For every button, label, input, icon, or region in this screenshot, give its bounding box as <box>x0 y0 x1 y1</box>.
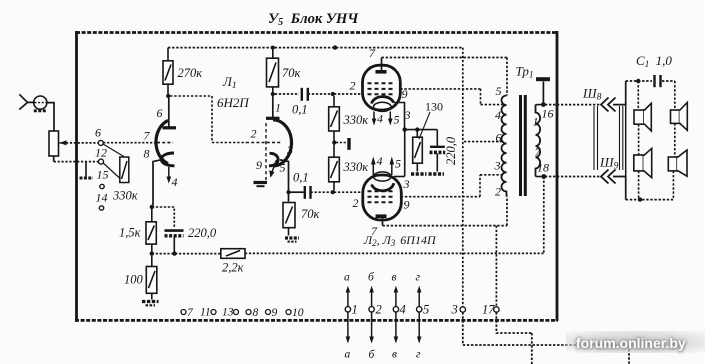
svg-text:Ш9: Ш9 <box>599 155 619 172</box>
node cathode RC <box>403 127 407 131</box>
node after top cap <box>331 92 335 96</box>
cable pair lines <box>594 106 623 170</box>
terminal circle 4 <box>393 307 398 312</box>
wire tube1 cathode lead pin3 <box>394 103 405 129</box>
node cathode junction <box>150 205 154 209</box>
transformer top ground <box>542 82 544 105</box>
wire left border <box>75 31 78 322</box>
wire triode2 cathode lead <box>280 160 289 202</box>
tube1 heater arrows 4 5 <box>373 112 375 121</box>
svg-text:10: 10 <box>292 307 304 319</box>
tube1 anode bar pin7 <box>376 70 387 74</box>
svg-text:5: 5 <box>496 84 502 98</box>
svg-text:13: 13 <box>222 307 234 319</box>
svg-text:9: 9 <box>256 158 262 172</box>
wire tube2 anode line <box>383 197 508 226</box>
terminal circle 5 <box>417 307 422 312</box>
shield ground <box>254 181 268 184</box>
wire Sh9 to bottom rail <box>613 177 626 200</box>
svg-text:6Н2П: 6Н2П <box>217 95 250 110</box>
tube2 grid row screen <box>368 196 395 198</box>
input jack hatched ground <box>34 109 47 112</box>
ground under 220.0 <box>429 172 445 175</box>
tube2 cathode arc <box>372 183 394 191</box>
callout line 130 <box>419 112 430 139</box>
tube2 grid row control <box>368 190 395 192</box>
block border <box>75 31 558 322</box>
triode2 grid dashes <box>246 142 281 144</box>
wire node12 to 330k bottom <box>103 163 125 183</box>
wire jack to pot <box>47 103 54 131</box>
resistor 70k bottom <box>283 203 295 236</box>
transformer secondary winding <box>536 105 541 177</box>
terminal 5 arrows <box>418 291 420 306</box>
bottom terminals 1 2 4 5 <box>346 286 422 344</box>
tube1 grid row control <box>368 93 395 95</box>
feedback drop from 18 <box>543 177 545 254</box>
wire top border <box>76 31 557 34</box>
small terminals row 7 11 13 8 9 10 <box>181 310 291 315</box>
speaker 3 <box>634 148 652 177</box>
wire sp3 to rail <box>638 171 640 200</box>
triode1 grid dashes <box>157 142 173 144</box>
B+ rail <box>168 47 463 49</box>
connector Sh9 arrows <box>601 170 616 184</box>
svg-text:7: 7 <box>371 224 378 238</box>
speaker 1 <box>634 103 651 131</box>
wire tube1 screen pin9 <box>400 89 504 105</box>
svg-text:7: 7 <box>369 46 376 60</box>
svg-text:3: 3 <box>494 159 501 173</box>
speaker 2 <box>671 103 688 131</box>
svg-text:270к: 270к <box>178 66 203 80</box>
resistor 70k top <box>267 48 279 92</box>
node bottom rail <box>638 197 642 201</box>
terminal circle 17 <box>494 307 499 312</box>
svg-text:6: 6 <box>157 106 163 120</box>
svg-text:12: 12 <box>95 146 107 160</box>
wire riser Sh8-Sh9 <box>625 105 627 177</box>
triode1 heater arrow 4 <box>168 167 170 179</box>
wire pot bottom <box>53 156 55 162</box>
svg-text:14: 14 <box>96 191 108 205</box>
wire tap6 to B+ <box>464 141 504 143</box>
svg-text:9: 9 <box>404 198 410 212</box>
wire shared cathode vertical <box>404 131 406 177</box>
wire bottom cap to node <box>311 191 332 193</box>
tube1 anode lead <box>381 58 383 72</box>
speaker 4 <box>668 150 687 176</box>
svg-text:Ш8: Ш8 <box>582 86 602 103</box>
svg-text:1: 1 <box>533 115 539 129</box>
tube2 anode bar pin7 <box>376 214 387 218</box>
svg-text:17: 17 <box>482 303 495 317</box>
svg-text:330к: 330к <box>343 113 369 127</box>
resistor 330k lower <box>329 145 340 191</box>
node 1.5k bottom <box>150 251 154 255</box>
svg-text:0,1: 0,1 <box>292 103 308 117</box>
resistor 330k upper <box>329 96 340 141</box>
tube1 grid row screen <box>368 88 395 90</box>
resistor 2.2k <box>221 249 245 259</box>
resistor 100 <box>146 256 157 300</box>
node 220.0 bottom <box>172 251 176 255</box>
wire anode line B <box>382 57 508 59</box>
wire pot bottom to terminal 12 <box>54 161 99 163</box>
L wire anode1 to grid2 <box>170 96 246 143</box>
svg-text:11: 11 <box>200 307 211 319</box>
connector Sh8 arrows <box>601 98 616 112</box>
svg-text:г: г <box>416 272 421 284</box>
wire triode1 cathode lead <box>153 160 161 206</box>
wire Sh8 from node16 <box>545 104 601 106</box>
wire junction to cap 220 <box>152 207 175 229</box>
svg-text:Л1: Л1 <box>222 74 237 91</box>
wire terminal17 below <box>496 312 531 364</box>
svg-text:б: б <box>368 272 375 284</box>
svg-text:С1 1,0: С1 1,0 <box>636 53 672 70</box>
node 16 <box>541 102 546 107</box>
wire terminal3 below <box>463 312 629 364</box>
svg-text:5: 5 <box>280 161 286 175</box>
capacitor 0.1 top <box>302 88 308 101</box>
resistor 330k input <box>120 157 129 183</box>
node 6 <box>98 140 103 145</box>
ground under 100 <box>142 300 159 303</box>
wire sp1 feed <box>637 81 639 155</box>
tube2 heater arrows 4 5 <box>372 162 374 175</box>
ground under 70k bottom <box>285 236 299 239</box>
svg-text:1: 1 <box>275 101 281 115</box>
wire tube2 screen pin9 <box>401 175 504 197</box>
wire line B down to tap5 <box>506 58 508 96</box>
output tube 1 envelope <box>363 65 401 110</box>
svg-text:г: г <box>416 349 421 361</box>
svg-text:330к: 330к <box>343 160 369 174</box>
wire node to output tube1 grid <box>334 93 363 95</box>
wire cathode to bottom cap <box>290 191 304 193</box>
wire anode lead triode1 <box>168 98 170 127</box>
resistor 130 <box>413 131 423 172</box>
input jack fork <box>19 94 33 109</box>
wire RC top <box>405 129 438 131</box>
tube2 top ellipse <box>374 172 392 181</box>
svg-text:в: в <box>392 349 397 361</box>
wire tube2 cathode lead pin3 <box>394 176 405 178</box>
feedback wire to 2.2k <box>152 253 221 255</box>
output tube 2 envelope <box>363 175 402 220</box>
svg-text:4: 4 <box>495 108 501 122</box>
node below 70k <box>271 92 275 96</box>
triode2 heater arrow 5 <box>272 160 277 173</box>
svg-text:8: 8 <box>253 307 259 319</box>
svg-text:3: 3 <box>404 108 411 122</box>
svg-text:а: а <box>344 272 350 284</box>
wire sp4 to rail <box>672 171 674 200</box>
node 15 <box>100 184 104 188</box>
resistor 270k <box>163 48 173 94</box>
svg-text:4: 4 <box>172 175 178 189</box>
svg-text:5: 5 <box>394 113 400 127</box>
wire node6 to 330k top <box>103 144 124 157</box>
ground under 130 <box>411 172 427 175</box>
tube1 grid row suppressor <box>368 82 395 84</box>
svg-text:4: 4 <box>400 303 406 317</box>
svg-text:6: 6 <box>496 131 502 145</box>
capacitor 0.1 bottom <box>305 186 311 199</box>
triode2 anode bar <box>266 117 280 120</box>
svg-text:130: 130 <box>425 100 443 114</box>
svg-text:9: 9 <box>272 307 278 319</box>
wire Sh9 from node18 <box>545 176 601 178</box>
node below 270k <box>166 94 170 98</box>
wire right border <box>556 31 559 321</box>
terminal 2 arrows <box>371 291 373 306</box>
svg-text:330к: 330к <box>112 189 138 203</box>
svg-text:9: 9 <box>402 87 408 101</box>
svg-text:7: 7 <box>187 307 194 319</box>
capacitor 220.0 output cathode <box>430 130 446 172</box>
terminal 1 arrows <box>347 291 349 306</box>
potentiometer wiper arrow <box>59 142 66 144</box>
svg-text:220,0: 220,0 <box>188 226 217 240</box>
svg-text:0,1: 0,1 <box>293 171 309 185</box>
capacitor C1 <box>655 75 661 87</box>
triode1 envelope <box>156 121 168 164</box>
wire 94 line to cap <box>275 93 299 95</box>
terminal circle 3 <box>460 307 465 312</box>
svg-text:4: 4 <box>377 154 383 168</box>
svg-text:б: б <box>369 349 376 361</box>
node between 330k <box>332 140 336 144</box>
triode1 cathode <box>161 153 174 166</box>
capacitor 220.0 (triode1 cathode) <box>165 231 184 254</box>
node top rail <box>636 79 640 83</box>
svg-text:220,0: 220,0 <box>444 136 458 165</box>
wire wiper to terminal 6 <box>66 142 98 144</box>
svg-text:70к: 70к <box>301 207 320 221</box>
wire secondary top to node16 <box>536 104 544 106</box>
svg-text:2: 2 <box>251 127 257 141</box>
svg-text:2,2к: 2,2к <box>222 261 244 275</box>
svg-text:1: 1 <box>352 303 358 317</box>
wire cap to node <box>308 93 331 95</box>
wire node to bar <box>336 142 347 144</box>
terminal circle 1 <box>345 307 350 312</box>
B+ vertical to terminal 3 <box>462 48 464 307</box>
svg-text:70к: 70к <box>282 66 301 80</box>
transformer core <box>519 95 522 196</box>
svg-text:1,5к: 1,5к <box>119 226 141 240</box>
svg-text:2: 2 <box>353 196 359 210</box>
svg-text:15: 15 <box>97 168 109 182</box>
node after bottom cap <box>331 190 335 194</box>
tube1 cathode arc <box>372 97 394 104</box>
svg-text:7: 7 <box>144 129 151 143</box>
tube2 grid row suppressor <box>368 201 395 203</box>
wire sp2 to sp4 <box>674 123 676 157</box>
svg-text:100: 100 <box>124 273 144 287</box>
resistor 1.5k <box>146 209 156 252</box>
feedback wire right <box>245 252 544 254</box>
svg-text:в: в <box>392 272 397 284</box>
svg-text:2: 2 <box>495 185 501 199</box>
transformer primary winding <box>502 96 507 197</box>
triode2 shield dashed line pin 9 <box>265 123 267 180</box>
contact bar <box>347 138 350 150</box>
svg-text:16: 16 <box>542 107 554 121</box>
svg-text:а: а <box>345 349 351 361</box>
node 14 <box>99 206 103 210</box>
svg-text:3: 3 <box>286 143 293 157</box>
svg-text:8: 8 <box>144 147 150 161</box>
triode2 cathode <box>269 153 278 166</box>
terminal circle 2 <box>369 307 374 312</box>
svg-text:6: 6 <box>95 126 101 140</box>
input jack circle <box>34 96 47 109</box>
wire secondary bottom to node18 <box>536 176 544 178</box>
svg-text:2: 2 <box>350 79 356 93</box>
node 12 <box>99 159 104 164</box>
node top rail 70k <box>271 46 275 50</box>
svg-text:5: 5 <box>423 303 429 317</box>
svg-text:Тр1: Тр1 <box>516 64 534 81</box>
speaker bottom rail <box>626 199 674 201</box>
wire sp2 feed <box>674 81 676 110</box>
triode1 anode bar <box>163 126 177 129</box>
potentiometer R body <box>49 131 59 156</box>
svg-text:4: 4 <box>377 112 383 126</box>
terminal 17 vertical <box>495 226 497 307</box>
wire node to output tube2 grid <box>334 191 363 193</box>
svg-text:18: 18 <box>537 161 549 175</box>
svg-text:У5 Блок УНЧ: У5 Блок УНЧ <box>268 11 359 28</box>
watermark forum.onliner.by <box>566 331 705 353</box>
tube2 anode lead <box>382 216 384 225</box>
speaker top rail <box>626 80 675 83</box>
tube1 bottom ellipse <box>374 102 392 111</box>
wire Sh8 to top rail <box>613 81 626 105</box>
triode2 envelope <box>273 120 292 166</box>
triode2 anode lead <box>272 96 274 118</box>
svg-text:3: 3 <box>451 303 458 317</box>
terminal 4 arrows <box>395 291 397 306</box>
svg-text:5: 5 <box>395 157 401 171</box>
node 18 <box>541 174 546 179</box>
wire bottom border <box>75 319 558 322</box>
svg-text:3: 3 <box>403 177 410 191</box>
svg-text:2: 2 <box>376 303 382 317</box>
node triode2 cathode at cap <box>286 190 290 194</box>
ground drop near terminal 12 <box>85 162 87 177</box>
svg-text:7: 7 <box>535 145 542 159</box>
